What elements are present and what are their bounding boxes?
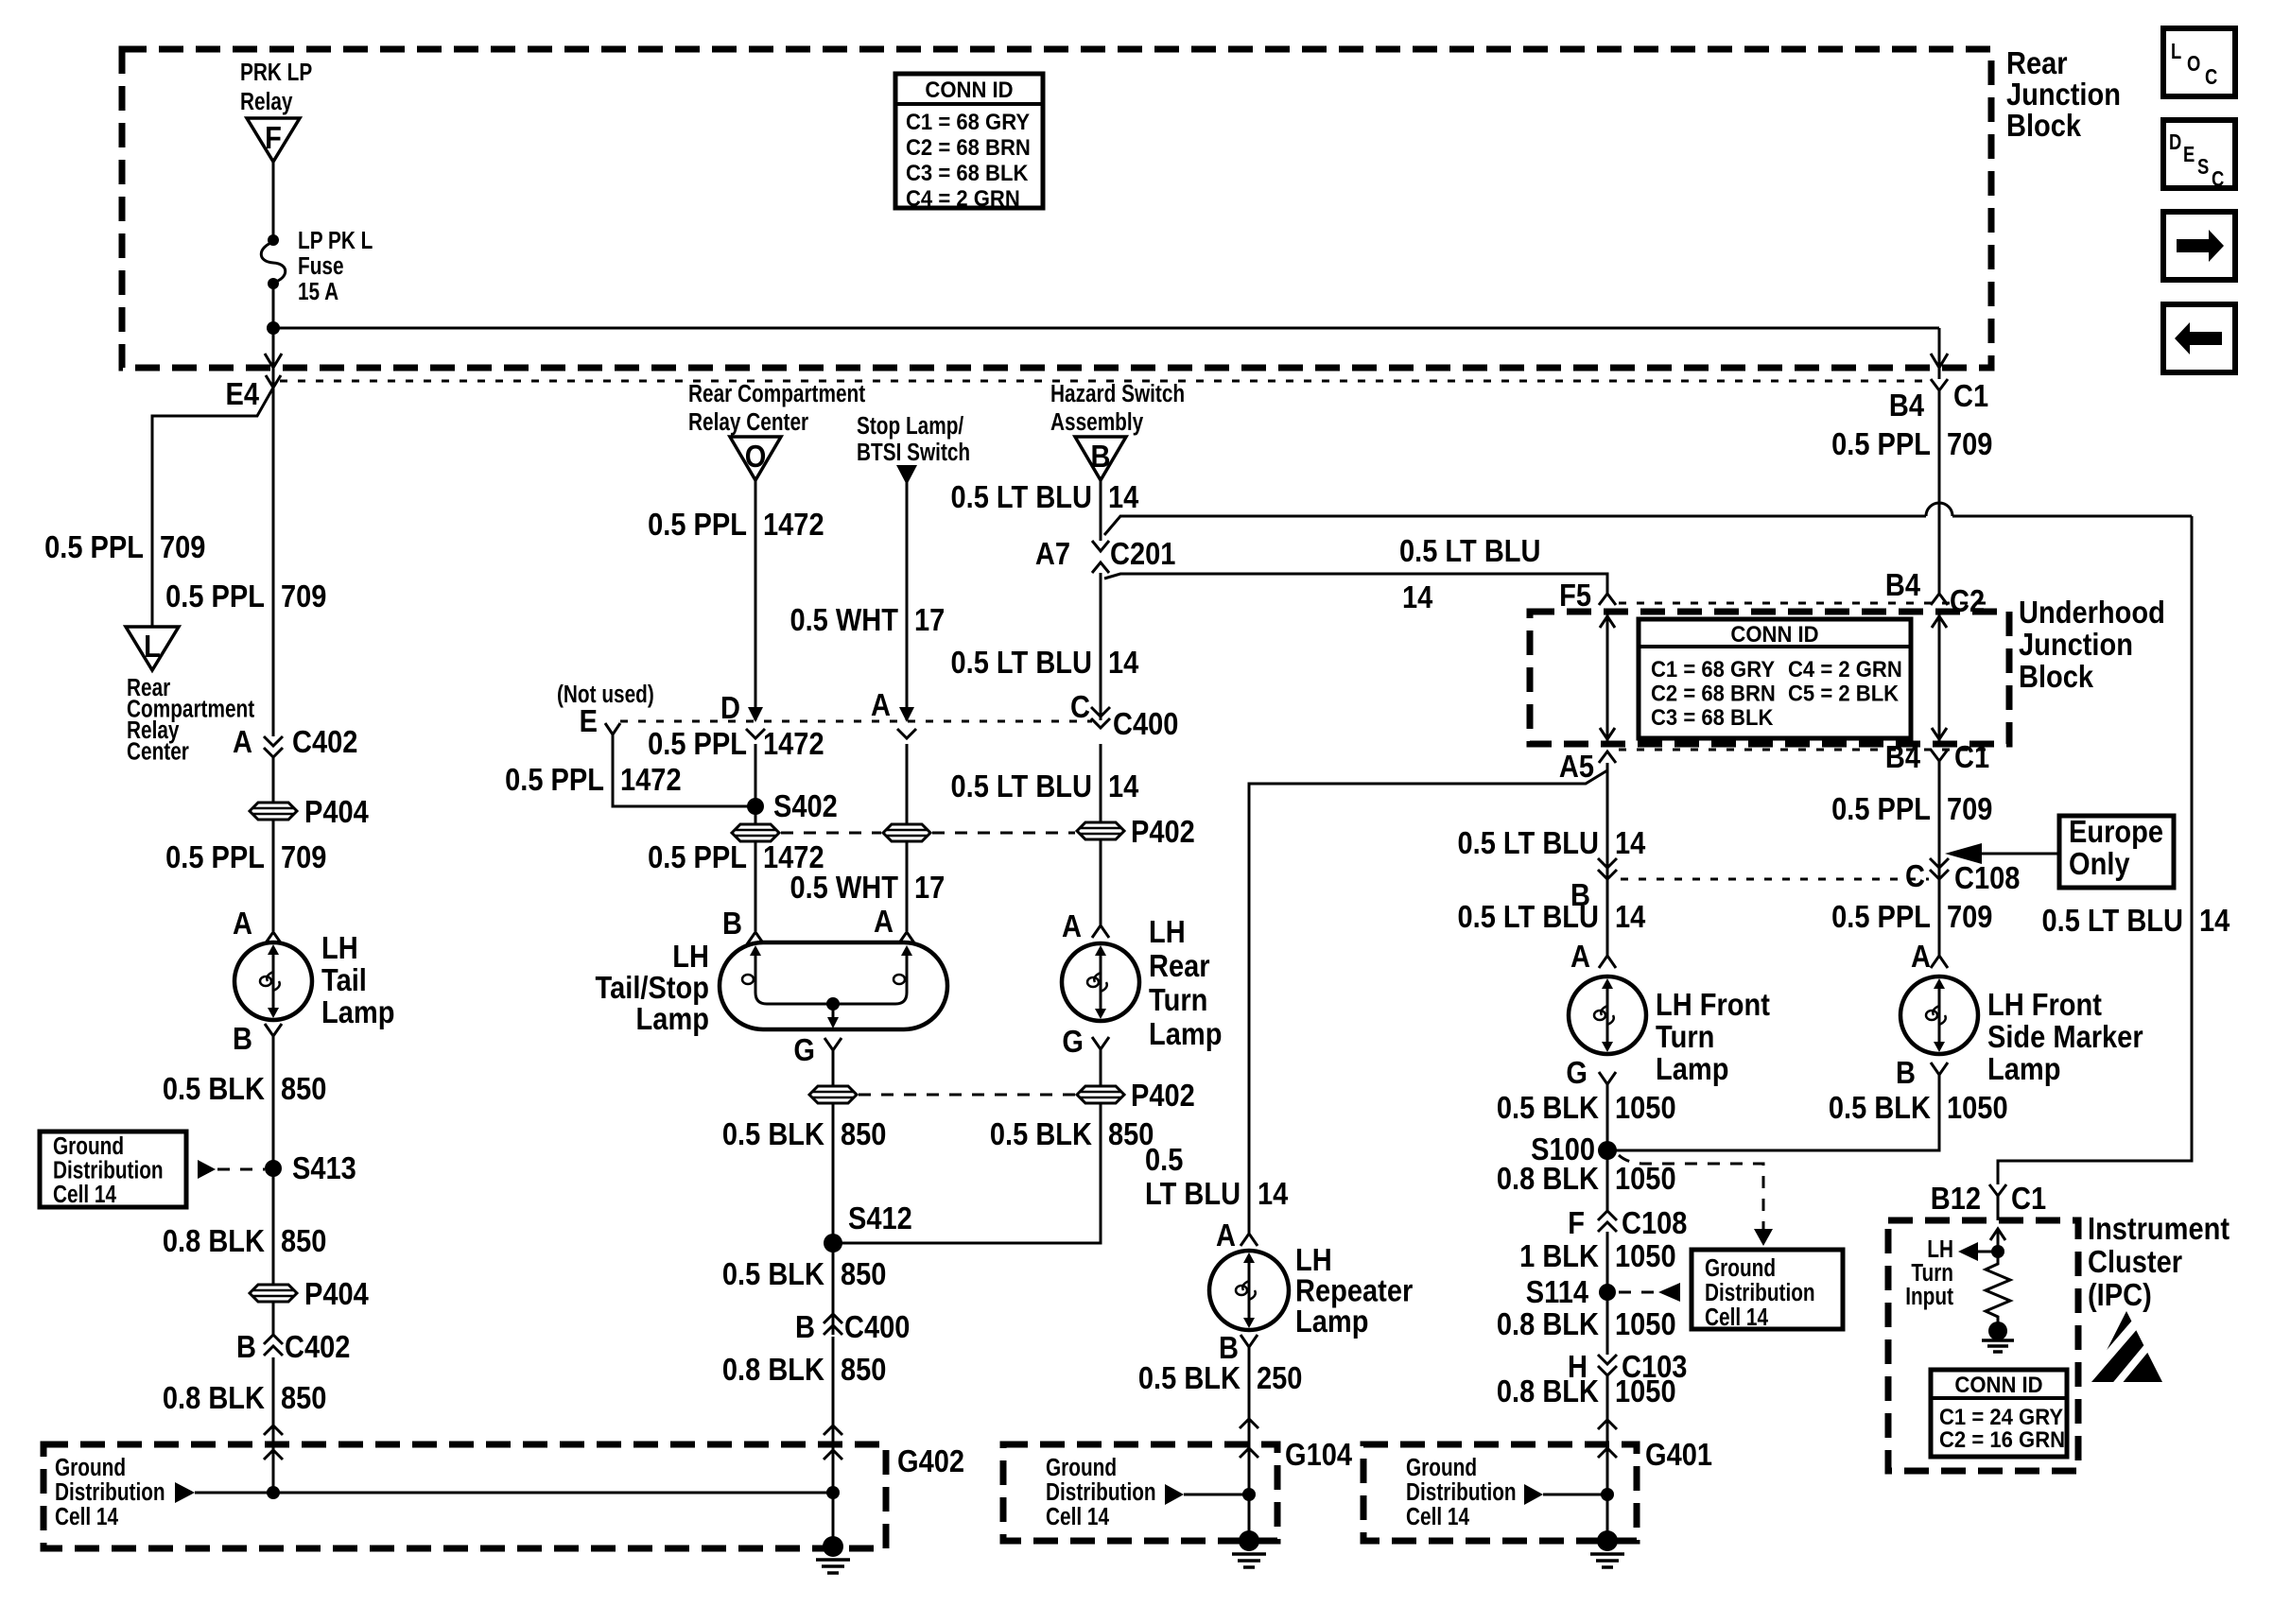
splice S100 [1531, 1132, 1617, 1166]
lamp pin B (side marker) [1896, 1055, 1948, 1090]
underhood junction block boundary (dashed box) [1530, 612, 2009, 744]
label: LH Front Turn Lamp [1656, 987, 1770, 1086]
wire: C108-B to front turn lamp A [1606, 879, 1609, 956]
label: Underhood Junction Block [2019, 595, 2165, 694]
svg-text:0.5 PPL: 0.5 PPL [648, 839, 747, 874]
wire: C1 underhood to C108 [1938, 761, 1941, 882]
svg-text:0.5 LT BLU: 0.5 LT BLU [2042, 903, 2183, 938]
connector C1 pin B4 (underhood bottom) [1885, 739, 1989, 774]
svg-text:O: O [745, 439, 767, 474]
wire: underhood internal (F5 to A5) with arrows [1600, 612, 1615, 744]
wire: G402 internal left drop [272, 1461, 275, 1493]
connector C1 pin B12 (IPC) [1931, 1181, 2046, 1220]
svg-text:C1: C1 [1954, 739, 1989, 774]
wire: C402-B to G402 [272, 1357, 275, 1492]
svg-text:A5: A5 [1559, 749, 1594, 784]
dashed link: S114 to ground distribution callout [1619, 1283, 1680, 1302]
svg-text:1050: 1050 [1615, 1373, 1676, 1408]
svg-text:0.8 BLK: 0.8 BLK [1497, 1306, 1600, 1341]
wire: C402-A to P404 [272, 757, 275, 803]
svg-text:A: A [1062, 908, 1082, 943]
svg-text:850: 850 [281, 1071, 326, 1106]
wire label 0.5 BLK 250 (repeater ground) [1138, 1360, 1303, 1395]
svg-text:D: D [2169, 130, 2181, 154]
icon box DESC [2163, 120, 2235, 192]
wire: C108-C to side marker lamp A [1938, 879, 1941, 956]
svg-text:O: O [2187, 52, 2200, 76]
bulb: LH Tail Lamp [234, 942, 312, 1020]
splice P402 (rear turn G wire) [1077, 1078, 1195, 1113]
ground distribution callout box (S100/S114) [1692, 1250, 1843, 1331]
wire: C400-C down to P402 [1100, 744, 1102, 822]
svg-text:C2 = 68 BRN: C2 = 68 BRN [1651, 681, 1776, 706]
svg-text:Turn: Turn [1656, 1019, 1714, 1054]
svg-text:B4: B4 [1889, 388, 1925, 423]
wire: P404 to tail lamp pin A [272, 820, 275, 931]
wire label 0.5 PPL 1472 (E branch) [505, 762, 681, 797]
connector arrows into G401 [1598, 1420, 1617, 1458]
connector triangle L (to Rear Compartment Relay Center) [126, 627, 179, 670]
svg-text:C1 = 68 GRY: C1 = 68 GRY [1651, 656, 1775, 682]
svg-text:LH Front: LH Front [1987, 987, 2102, 1022]
wire label 0.8 BLK 1050 (above G401) [1497, 1373, 1676, 1408]
splice S413 [265, 1150, 356, 1185]
ground G104 [1232, 1530, 1266, 1567]
wire label 0.5 WHT 17 (BTSI wire) [789, 602, 945, 637]
svg-text:0.5 BLK: 0.5 BLK [722, 1116, 825, 1151]
svg-text:14: 14 [1615, 899, 1646, 934]
callout box: Europe Only [2059, 814, 2174, 888]
connector C108 pin B (front turn side) [1570, 858, 1617, 912]
ground distribution callout box (S413) [40, 1132, 186, 1208]
svg-text:Instrument: Instrument [2088, 1211, 2230, 1246]
svg-text:Ground: Ground [1406, 1454, 1477, 1481]
wire: C400-B to G402 [832, 1337, 835, 1492]
relay connector triangle F (PRK LP Relay) [247, 118, 300, 162]
svg-text:C108: C108 [1954, 860, 2020, 895]
wire: E4 jog to left branch [152, 388, 273, 627]
connector arrows into G402 (right wire) [824, 1425, 842, 1460]
svg-text:S114: S114 [1526, 1274, 1589, 1309]
svg-text:Junction: Junction [2006, 77, 2121, 112]
svg-text:L: L [2171, 40, 2181, 63]
wire label 0.5 BLK 850 (tail/stop ground) [722, 1116, 887, 1151]
connector C108 pin F [1568, 1205, 1687, 1240]
svg-text:850: 850 [281, 1380, 326, 1415]
svg-text:Cell 14: Cell 14 [1705, 1304, 1768, 1331]
svg-text:Cell 14: Cell 14 [55, 1503, 118, 1530]
wire label 0.5 BLK 850 (rear turn ground) [990, 1116, 1154, 1151]
svg-text:F5: F5 [1559, 578, 1591, 613]
svg-text:Underhood: Underhood [2019, 595, 2165, 630]
wire label 0.5 PPL 709 (below C108-C) [1831, 899, 1992, 934]
svg-text:G: G [1566, 1055, 1588, 1090]
svg-text:C2 = 16 GRN: C2 = 16 GRN [1939, 1426, 2065, 1452]
svg-text:Side Marker: Side Marker [1987, 1019, 2143, 1054]
connector pin E4 [225, 375, 281, 411]
svg-text:CONN ID: CONN ID [1730, 621, 1818, 647]
svg-text:C402: C402 [292, 724, 357, 759]
svg-text:709: 709 [281, 579, 326, 613]
svg-text:Ground: Ground [53, 1132, 124, 1160]
junction: G402 right node [826, 1486, 840, 1499]
wire: fuse to junction [272, 284, 275, 328]
ground G402 [816, 1536, 850, 1573]
wire: C201 branch to IPC (upper horizontal with hop) [1104, 503, 2192, 535]
svg-text:14: 14 [1108, 769, 1139, 803]
splice S402 [747, 788, 838, 823]
wire label 0.5 PPL 1472 (O wire) [648, 507, 824, 542]
svg-text:14: 14 [1402, 579, 1433, 614]
svg-text:C108: C108 [1622, 1205, 1687, 1240]
svg-text:Europe: Europe [2069, 814, 2163, 849]
wire: C201 to C400-C [1100, 573, 1102, 720]
arrow: Europe Only applies to C108 wire [1945, 843, 2059, 864]
svg-text:Cell 14: Cell 14 [1046, 1503, 1109, 1530]
lamp pin B (tail/stop) [722, 906, 764, 944]
lamp pin G (front turn) [1566, 1055, 1616, 1090]
wire label 0.8 BLK 1050 (below S100) [1497, 1161, 1676, 1196]
splice P402 (tail/stop B wire) [732, 824, 779, 841]
lamp pin B (LH tail lamp) [233, 1021, 282, 1056]
svg-text:Rear Compartment: Rear Compartment [688, 380, 865, 407]
svg-text:Relay: Relay [240, 88, 292, 115]
svg-text:B4: B4 [1885, 567, 1921, 602]
connector arrows into G104 [1240, 1419, 1258, 1458]
svg-text:Distribution: Distribution [53, 1156, 164, 1183]
wire: hazard B to C201-A7 [1100, 480, 1102, 541]
svg-text:0.5 BLK: 0.5 BLK [722, 1256, 825, 1291]
wire label 0.5 LT BLU 14 (hazard above C201) [951, 479, 1139, 514]
svg-text:Input: Input [1905, 1283, 1953, 1310]
fuse LP PK L 15 A [261, 227, 373, 305]
label: Rear Junction Block [2006, 45, 2121, 143]
svg-text:17: 17 [914, 870, 945, 905]
wire: C103-H to G401 [1606, 1375, 1609, 1494]
svg-text:250: 250 [1257, 1360, 1302, 1395]
CONN ID table (rear junction block) [895, 74, 1043, 211]
svg-text:Tail: Tail [321, 962, 367, 997]
connector C400 pin E (not used) [580, 703, 620, 738]
svg-text:Distribution: Distribution [55, 1478, 165, 1506]
svg-text:Cell 14: Cell 14 [1406, 1503, 1469, 1530]
wire label 0.8 BLK 850 (above G402 right) [722, 1352, 887, 1387]
svg-text:G: G [793, 1032, 815, 1067]
svg-text:C400: C400 [844, 1309, 910, 1344]
svg-text:B4: B4 [1885, 739, 1921, 774]
wire label 0.5 LT BLU 14 (repeater feed) [1145, 1142, 1289, 1211]
CONN ID table (underhood junction block) [1639, 619, 1911, 738]
wire: rear turn G to P402 (lower) [1100, 1049, 1102, 1086]
svg-text:S413: S413 [292, 1150, 356, 1185]
svg-text:LT BLU: LT BLU [1145, 1176, 1241, 1211]
svg-text:PRK LP: PRK LP [240, 59, 312, 86]
wire: C201 branch to F5 (lower horizontal) [1104, 574, 1607, 594]
wire: G402 bus to ground [273, 1492, 833, 1494]
wire: IPC input with arrow [1990, 1229, 2005, 1252]
svg-text:Block: Block [2019, 659, 2094, 694]
connector boundary line (underhood top, C2) [1619, 602, 1995, 605]
wire label 0.5 BLK 1050 (side marker ground) [1829, 1090, 2008, 1125]
connector C108 pin C (side marker side) [1905, 858, 2020, 895]
label: LH Rear Turn Lamp [1149, 914, 1222, 1051]
svg-text:C2 = 68 BRN: C2 = 68 BRN [906, 134, 1031, 160]
ground box G104 (dashed) [1003, 1437, 1353, 1541]
svg-text:0.5 BLK: 0.5 BLK [1138, 1360, 1241, 1395]
svg-text:0.8 BLK: 0.8 BLK [1497, 1373, 1600, 1408]
svg-text:C400: C400 [1113, 706, 1178, 741]
wire: G401 drop to ground [1606, 1494, 1609, 1541]
label: LH Repeater Lamp [1295, 1242, 1413, 1339]
svg-text:CONN ID: CONN ID [1954, 1372, 2042, 1397]
junction: IPC input node and LH Turn Input tap [1958, 1242, 2004, 1261]
arrow: ground distribution feed (G104) [1165, 1484, 1249, 1505]
svg-text:C1 = 68 GRY: C1 = 68 GRY [906, 109, 1030, 134]
svg-text:Rear: Rear [2006, 45, 2068, 80]
arrow: ground distribution feed (G402) [175, 1482, 273, 1503]
wire: P402 to rear turn pin A [1100, 839, 1102, 925]
svg-text:B: B [1896, 1055, 1916, 1090]
label: LH Front Side Marker Lamp [1987, 987, 2143, 1086]
wire: P402 to tail/stop pin B [755, 841, 757, 931]
svg-text:E: E [580, 703, 598, 738]
svg-text:Hazard Switch: Hazard Switch [1050, 380, 1185, 407]
wire: S100 to C108-F [1606, 1150, 1609, 1211]
svg-text:B12: B12 [1931, 1181, 1981, 1216]
svg-text:L: L [144, 629, 161, 664]
lamp pin A (LH tail lamp) [233, 906, 282, 944]
svg-text:A: A [1216, 1218, 1236, 1253]
svg-text:P404: P404 [304, 1276, 369, 1311]
svg-text:0.5 LT BLU: 0.5 LT BLU [1458, 825, 1599, 860]
svg-text:14: 14 [1108, 645, 1139, 680]
connector C400 pin C [1070, 689, 1178, 741]
bulb: LH Front Side Marker Lamp [1900, 976, 1978, 1054]
lamp pin A (repeater) [1216, 1218, 1258, 1253]
wire: E4 down to C402-A [272, 381, 275, 736]
svg-text:(Not used): (Not used) [557, 681, 654, 708]
svg-text:0.5: 0.5 [1145, 1142, 1183, 1177]
wire label 0.5 PPL 709 (E4 left branch) [44, 529, 205, 564]
connector C400 pin B [795, 1309, 910, 1344]
label (Not used) [557, 681, 654, 708]
svg-text:G: G [1062, 1024, 1084, 1059]
svg-text:14: 14 [1615, 825, 1646, 860]
svg-text:0.5 PPL: 0.5 PPL [1831, 899, 1931, 934]
svg-text:Stop Lamp/: Stop Lamp/ [857, 412, 964, 440]
svg-text:0.5 LT BLU: 0.5 LT BLU [1458, 899, 1599, 934]
svg-text:0.8 BLK: 0.8 BLK [163, 1223, 266, 1258]
dashed link P402 row left [781, 832, 881, 835]
svg-text:850: 850 [841, 1256, 886, 1291]
svg-text:LH: LH [672, 939, 709, 974]
svg-text:0.5 PPL: 0.5 PPL [165, 579, 265, 613]
ground box G402 (dashed) [43, 1443, 964, 1548]
svg-text:Ground: Ground [1046, 1454, 1117, 1481]
wire label 0.5 LT BLU 14 (hazard above C400) [951, 645, 1139, 680]
wire: side marker B to S100 bus [1607, 1075, 1939, 1150]
wire: relay F output to fuse [272, 162, 275, 240]
svg-text:17: 17 [914, 602, 945, 637]
splice P404 (lower) [250, 1276, 369, 1311]
svg-text:0.5 PPL: 0.5 PPL [44, 529, 144, 564]
label: Ground Distribution Cell 14 (G402) [55, 1454, 165, 1530]
dashed link: ground distribution to S413 [198, 1160, 265, 1179]
svg-text:LH Front: LH Front [1656, 987, 1770, 1022]
connector C1 pin B4 (rear junction block) [1889, 378, 1988, 423]
svg-text:E4: E4 [225, 376, 259, 411]
svg-text:0.5 PPL: 0.5 PPL [505, 762, 604, 797]
wire label 0.8 BLK 850 (below S413) [163, 1223, 327, 1258]
wire: G104 drop to ground [1248, 1494, 1251, 1541]
svg-text:Lamp: Lamp [1656, 1051, 1728, 1086]
svg-text:0.8 BLK: 0.8 BLK [1497, 1161, 1600, 1196]
svg-text:1050: 1050 [1615, 1238, 1676, 1273]
wire: C1 to C2 (0.5 PPL 709) [1938, 390, 1941, 594]
svg-text:Lamp: Lamp [1295, 1304, 1368, 1339]
ground G401 [1590, 1530, 1624, 1567]
svg-text:Ground: Ground [55, 1454, 126, 1481]
svg-text:0.8 BLK: 0.8 BLK [722, 1352, 825, 1387]
svg-text:1472: 1472 [620, 762, 682, 797]
wire: C400-E to S402 [613, 734, 748, 806]
label: Stop Lamp / BTSI Switch [857, 412, 970, 466]
svg-text:B: B [233, 1021, 252, 1056]
junction: G401 node [1601, 1488, 1614, 1501]
wire label 0.5 LT BLU 14 (below C400-C) [951, 769, 1139, 803]
wire label 0.5 LT BLU 14 (above C108-B) [1458, 825, 1646, 860]
svg-text:C: C [1070, 689, 1090, 724]
svg-text:0.8 BLK: 0.8 BLK [163, 1380, 266, 1415]
svg-text:709: 709 [1947, 791, 1992, 826]
svg-text:Rear: Rear [1149, 948, 1210, 983]
icon box LOC [2163, 28, 2235, 96]
wire: front turn G to S100 [1606, 1084, 1609, 1150]
svg-text:850: 850 [281, 1223, 326, 1258]
svg-text:(IPC): (IPC) [2088, 1277, 2152, 1312]
lamp pin G (rear turn) [1062, 1024, 1109, 1059]
svg-text:0.5 BLK: 0.5 BLK [1829, 1090, 1932, 1125]
svg-text:C5 = 2 BLK: C5 = 2 BLK [1788, 681, 1899, 706]
svg-text:S412: S412 [848, 1201, 912, 1235]
svg-text:1050: 1050 [1615, 1090, 1676, 1125]
connector boundary line (underhood bottom, C1) [1619, 749, 1995, 752]
svg-text:0.5 LT BLU: 0.5 LT BLU [951, 645, 1092, 680]
svg-text:BTSI Switch: BTSI Switch [857, 439, 970, 466]
connector C400 pin A [871, 687, 916, 738]
connector C400 pin D [720, 690, 765, 738]
svg-text:D: D [720, 690, 740, 725]
wire label 0.5 BLK 1050 (front turn ground) [1497, 1090, 1676, 1125]
dashed link: S100 to ground distribution callout [1619, 1155, 1773, 1246]
lamp pin A (rear turn) [1062, 908, 1109, 943]
svg-text:0.5 PPL: 0.5 PPL [1831, 791, 1931, 826]
svg-text:A: A [1911, 939, 1931, 974]
svg-text:0.5 PPL: 0.5 PPL [648, 507, 747, 542]
wire label 0.5 LT BLU 14 (below C108-B) [1458, 899, 1646, 934]
wire label 0.5 PPL 1472 (below C400-D) [648, 726, 824, 761]
splice P402 (tail/stop G wire) [809, 1086, 857, 1103]
svg-text:B: B [722, 906, 742, 941]
svg-text:A7: A7 [1035, 536, 1070, 571]
wire: G402 drop to ground [832, 1461, 835, 1546]
svg-text:Distribution: Distribution [1406, 1478, 1517, 1506]
wire: tail/stop G from P402 through S412 to C400-B [832, 1103, 835, 1335]
svg-text:Lamp: Lamp [1987, 1051, 2060, 1086]
svg-text:A: A [233, 724, 252, 759]
dashed link P402 row right [932, 832, 1075, 835]
wire label 0.5 PPL 709 (above C402) [165, 579, 326, 613]
instrument cluster boundary (dashed box) [1888, 1220, 2078, 1471]
wire: A5 branch to repeater lamp [1249, 770, 1607, 1234]
label: Hazard Switch Assembly [1050, 380, 1185, 436]
svg-text:0.5 LT BLU: 0.5 LT BLU [951, 479, 1092, 514]
svg-text:709: 709 [1947, 426, 1992, 461]
svg-text:0.5 BLK: 0.5 BLK [163, 1071, 266, 1106]
connector arrows into G402 (left wire) [264, 1425, 283, 1460]
svg-text:1472: 1472 [763, 726, 824, 761]
wire: BTSI switch to C400-A with source arrow [896, 465, 917, 720]
svg-text:0.5 PPL: 0.5 PPL [1831, 426, 1931, 461]
svg-text:A: A [233, 906, 252, 941]
lamp pin A (tail/stop) [874, 904, 915, 944]
svg-text:C2: C2 [1950, 583, 1985, 618]
connector triangle B (Hazard Switch Assembly) [1075, 437, 1126, 480]
wire: tail/stop G to P402 [832, 1050, 835, 1086]
svg-text:Relay Center: Relay Center [688, 408, 808, 436]
svg-text:C1 = 24 GRY: C1 = 24 GRY [1939, 1404, 2063, 1429]
wire label 0.5 PPL 709 (below underhood) [1831, 791, 1992, 826]
connector C103 pin H [1568, 1349, 1687, 1384]
svg-text:G402: G402 [897, 1443, 964, 1478]
resistor: LH turn input load (IPC internal) [1986, 1252, 2010, 1323]
svg-text:15 A: 15 A [298, 278, 338, 305]
svg-text:Junction: Junction [2019, 627, 2133, 662]
svg-text:G104: G104 [1285, 1437, 1353, 1472]
svg-text:B: B [1091, 439, 1111, 474]
ground box G401 (dashed) [1363, 1437, 1712, 1541]
svg-text:Cluster: Cluster [2088, 1244, 2182, 1279]
svg-text:F: F [265, 120, 282, 155]
wire label 0.5 PPL 1472 (above tail/stop B) [648, 839, 824, 874]
svg-text:Distribution: Distribution [1046, 1478, 1156, 1506]
wire: P402 to S412 corner [842, 1103, 1101, 1243]
svg-text:1472: 1472 [763, 507, 824, 542]
svg-text:Lamp: Lamp [1149, 1016, 1222, 1051]
wire: C400-A down to P402 [906, 744, 909, 824]
bulb: LH Front Turn Lamp [1569, 976, 1646, 1054]
svg-text:Distribution: Distribution [1705, 1279, 1815, 1306]
icon box forward arrow [2163, 212, 2235, 280]
svg-text:B: B [236, 1329, 256, 1364]
svg-text:S: S [2197, 155, 2209, 179]
label: Rear Compartment Relay Center (left) [127, 674, 254, 765]
wire: bus from fuse junction to right side [273, 327, 1939, 330]
svg-text:C3 = 68 BLK: C3 = 68 BLK [906, 160, 1029, 185]
svg-text:14: 14 [1108, 479, 1139, 514]
svg-text:0.5 WHT: 0.5 WHT [789, 870, 898, 905]
wire label 0.5 LT BLU 14 (branch to F5) [1399, 533, 1540, 614]
splice S114 [1526, 1274, 1616, 1309]
wire: tail lamp B to S413 [272, 1036, 275, 1167]
svg-text:C: C [2212, 167, 2224, 191]
wire label 0.8 BLK 1050 (below S114) [1497, 1306, 1676, 1341]
svg-text:LP PK L: LP PK L [298, 227, 373, 254]
wire label 0.8 BLK 850 (above G402) [163, 1380, 327, 1415]
svg-text:0.5 PPL: 0.5 PPL [165, 839, 265, 874]
lamp pin A (side marker) [1911, 939, 1948, 974]
svg-text:C4 = 2 GRN: C4 = 2 GRN [1788, 656, 1902, 682]
